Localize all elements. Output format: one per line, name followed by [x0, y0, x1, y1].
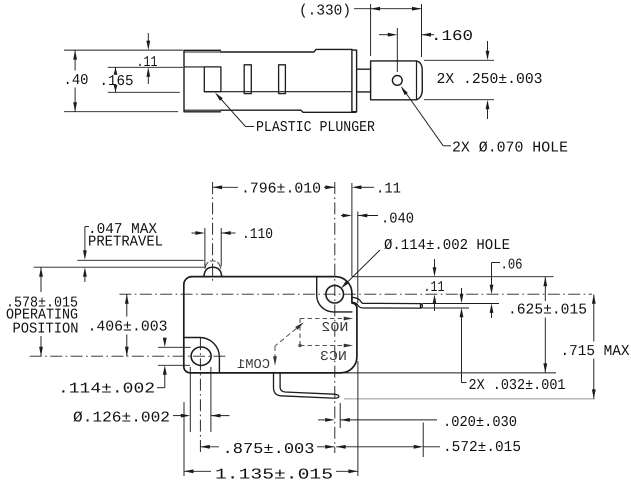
blade bottom extension right: [423, 307, 470, 309]
svg-text:NC3: NC3: [320, 350, 347, 365]
terminal tip line: [344, 398, 595, 400]
dim Ø.126±.002: [173, 415, 182, 417]
dim .406±.003: [126, 294, 128, 316]
dim 1.135 extension lines: [183, 402, 185, 476]
centerline vertical through lower-left hole: [199, 338, 201, 453]
bottom view: lower-left mounting boss: [184, 338, 220, 373]
svg-text:.06: .06: [501, 257, 523, 274]
body right edge extension up: [351, 183, 353, 277]
svg-text:.715 MAX: .715 MAX: [561, 343, 630, 360]
dim Ø.126 extension lines: [189, 367, 191, 432]
dim 2X .250±.003: [487, 41, 489, 52]
label 2X Ø.070 HOLE with leader: [443, 145, 451, 147]
body top edge extension right: [352, 276, 554, 278]
svg-text:2X .250±.003: 2X .250±.003: [437, 71, 543, 88]
svg-text:.020±.030: .020±.030: [443, 414, 517, 431]
top view: plunger slot 3: [279, 65, 286, 94]
svg-text:1.135±.015: 1.135±.015: [215, 467, 333, 484]
dim (.330): [354, 8, 422, 10]
dim .110 extension lines: [204, 228, 206, 266]
dim .875±.003: [200, 446, 219, 448]
bottom view: bent terminal at bottom: [274, 373, 339, 398]
svg-text:.165: .165: [100, 73, 134, 90]
svg-text:.11: .11: [376, 181, 401, 198]
dim .047 MAX PRETRAVEL: [85, 226, 89, 228]
svg-text:2X Ø.070 HOLE: 2X Ø.070 HOLE: [452, 140, 568, 157]
dim .572±.015: [336, 446, 414, 448]
svg-text:.572±.015: .572±.015: [443, 439, 521, 456]
top view: switch body outline: [221, 49, 356, 112]
svg-text:.11: .11: [137, 54, 158, 71]
dim .040: [341, 215, 344, 217]
label Ø.114±.002 HOLE with leader: [343, 250, 381, 287]
svg-text:COM1: COM1: [237, 358, 270, 373]
operating position line: [34, 266, 206, 268]
svg-text:.114±.002: .114±.002: [58, 381, 155, 398]
dim (.330) extension lines: [370, 4, 372, 56]
svg-text:.40: .40: [64, 72, 89, 89]
dim .572 extension line (blade tip): [422, 423, 424, 458]
svg-text:2X .032±.001: 2X .032±.001: [469, 377, 566, 394]
body bottom edge extension right: [344, 372, 556, 374]
dim .625±.015: [544, 277, 546, 301]
dim .165 extension lines: [108, 66, 183, 68]
bottom view: common terminal blade (right side) hook and blade: [352, 297, 421, 308]
band edge extension up: [357, 212, 359, 304]
dim .11 (body top to centerline): [434, 259, 436, 269]
svg-text:.875±.003: .875±.003: [223, 441, 315, 458]
dim .020 extension line (terminal tip): [339, 403, 341, 428]
dim 2X .250 extension lines: [424, 59, 494, 61]
label PLASTIC PLUNGER with leader: [246, 126, 255, 128]
dim .11 top view: [147, 33, 149, 43]
dim .40: [74, 50, 76, 70]
bottom view: switch body outline: [184, 277, 357, 373]
svg-text:POSITION: POSITION: [13, 320, 79, 337]
top view: plunger slot 1: [204, 67, 221, 92]
dashed leader to COM terminal: [275, 324, 303, 347]
svg-text:.406±.003: .406±.003: [88, 319, 168, 336]
svg-text:PLASTIC PLUNGER: PLASTIC PLUNGER: [256, 119, 375, 136]
svg-text:(.330): (.330): [299, 3, 351, 20]
dim .114±.002: [164, 338, 166, 340]
top view: terminal tab: [371, 61, 423, 100]
top view: body interior line lower: [204, 91, 352, 93]
svg-text:.796±.010: .796±.010: [241, 181, 321, 198]
dim .160 extension line (hole centerline): [396, 28, 398, 72]
centerline horizontal through upper-right hole: [119, 293, 592, 295]
svg-text:.110: .110: [242, 226, 273, 243]
dim .796±.010: [213, 186, 238, 188]
svg-text:.625±.015: .625±.015: [508, 302, 587, 319]
bottom view: plunger dome (operating position): [204, 267, 222, 276]
bottom view: upper-right mounting boss: [317, 277, 352, 312]
svg-text:NO2: NO2: [321, 321, 348, 336]
dim .110: [192, 232, 197, 234]
bottom view: blade tip: [421, 304, 423, 309]
free position line: [77, 259, 204, 261]
centerline vertical through upper-right hole: [334, 182, 336, 453]
centerline horizontal through lower-left hole: [30, 355, 228, 357]
dashed box top line with arrow: [300, 318, 348, 320]
top view: body interior line upper: [184, 66, 204, 68]
dim 2X .032±.001: [461, 288, 463, 295]
top view: plunger slot 2: [244, 65, 251, 94]
bottom view: mounting hole upper-right: [326, 285, 344, 303]
dim .578±.015 OPERATING POSITION: [40, 267, 42, 292]
blade top extension right: [423, 303, 500, 305]
dashed box bottom line with arrow: [300, 345, 348, 347]
top view: plunger housing ferrule (left cap): [184, 50, 221, 112]
dim .06: [492, 262, 501, 264]
svg-text:.160: .160: [431, 28, 473, 45]
dim .160: [379, 34, 389, 36]
dashed box left side: [299, 319, 301, 346]
bottom view: plunger dome free position (phantom): [205, 262, 208, 268]
dim .11 (hole cl to body edge): [358, 186, 374, 188]
dim .165: [115, 67, 117, 71]
dim .40 extension lines: [64, 49, 183, 51]
svg-text:Ø.126±.002: Ø.126±.002: [73, 410, 170, 427]
dim .715 MAX: [593, 294, 595, 341]
bottom view: mounting hole lower-left: [191, 347, 211, 365]
dim .020±.030: [318, 419, 326, 421]
top view: terminal hole: [392, 76, 402, 86]
top view: right end cap: [352, 50, 357, 113]
dim 1.135±.015: [184, 470, 211, 472]
centerline vertical through plunger: [212, 182, 214, 282]
svg-text:Ø.114±.002 HOLE: Ø.114±.002 HOLE: [384, 237, 510, 254]
svg-text:.040: .040: [381, 211, 414, 228]
hole edge extension lines left: [158, 346, 191, 348]
svg-text:.11: .11: [424, 279, 445, 296]
svg-text:PRETRAVEL: PRETRAVEL: [88, 234, 163, 251]
top view: terminal neck: [357, 69, 371, 92]
